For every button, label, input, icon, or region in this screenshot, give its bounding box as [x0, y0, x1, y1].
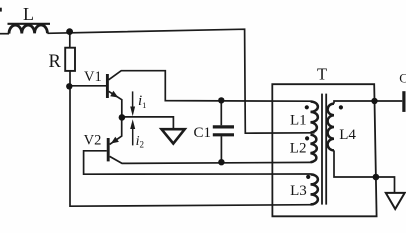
svg-text:i2: i2 [136, 134, 144, 149]
svg-text:C1: C1 [194, 125, 212, 141]
svg-text:L4: L4 [339, 127, 356, 143]
svg-text:L: L [23, 4, 34, 24]
svg-text:C: C [399, 71, 406, 86]
svg-text:L2: L2 [290, 141, 307, 157]
svg-text:i1: i1 [138, 93, 146, 110]
svg-text:T: T [317, 65, 327, 84]
svg-text:L3: L3 [290, 183, 307, 199]
svg-text:R: R [49, 52, 62, 72]
svg-text:V2: V2 [84, 132, 102, 148]
svg-text:L1: L1 [290, 113, 307, 129]
svg-text:V1: V1 [84, 69, 102, 85]
